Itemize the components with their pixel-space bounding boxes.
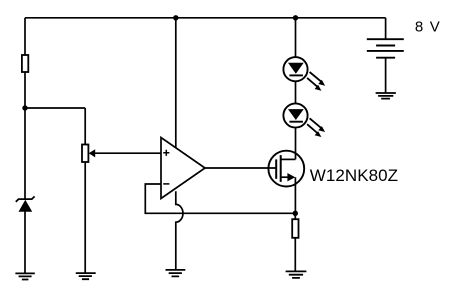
svg-text:W12NK80Z: W12NK80Z xyxy=(310,166,398,185)
svg-text:8 V: 8 V xyxy=(415,19,441,36)
